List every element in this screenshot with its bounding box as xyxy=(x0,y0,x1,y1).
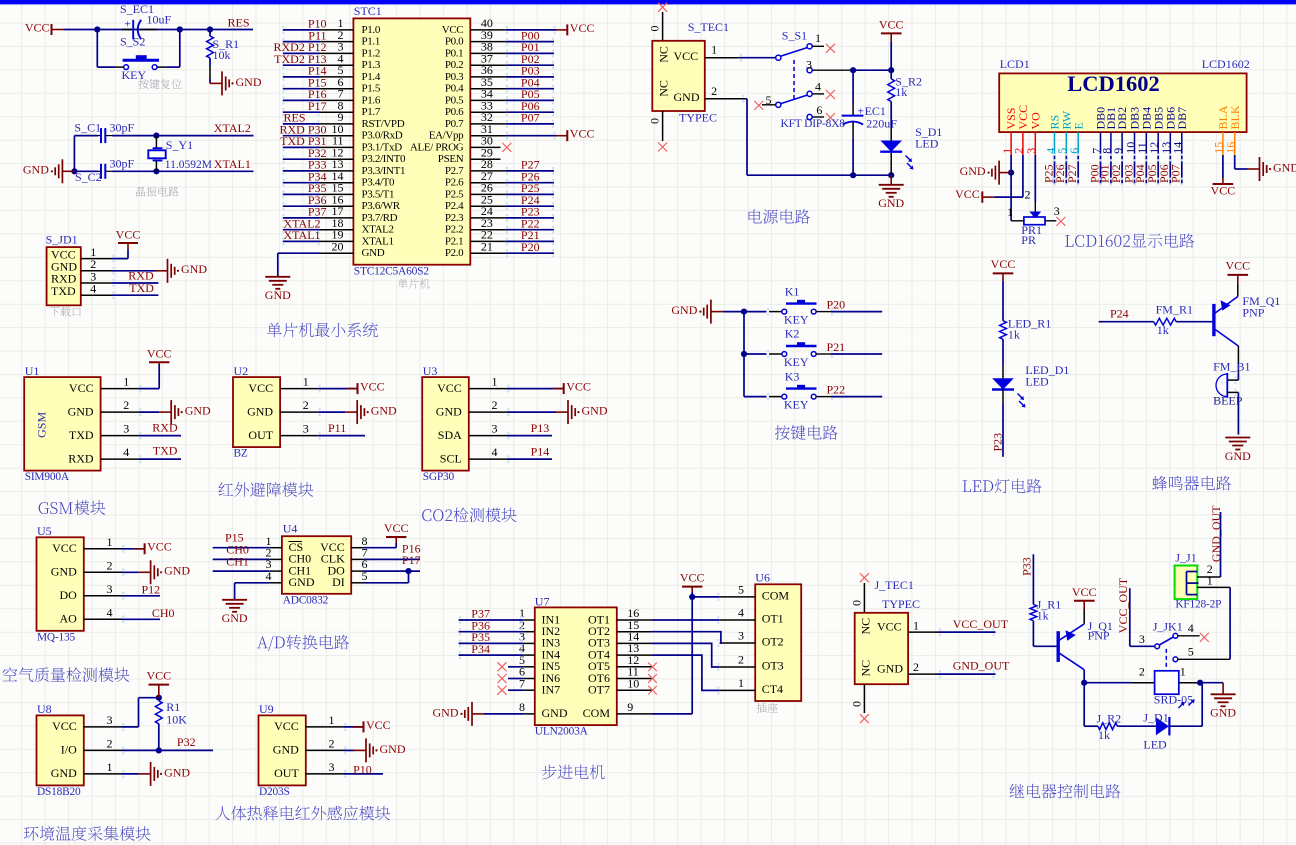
svg-text:1k: 1k xyxy=(895,85,907,99)
svg-text:P2.2: P2.2 xyxy=(445,224,463,236)
svg-text:1: 1 xyxy=(107,535,113,549)
svg-text:1: 1 xyxy=(1180,665,1186,679)
svg-text:DO: DO xyxy=(59,588,77,602)
svg-text:GND: GND xyxy=(181,262,207,276)
svg-text:P13: P13 xyxy=(531,421,550,435)
svg-text:3: 3 xyxy=(123,422,129,436)
svg-text:20: 20 xyxy=(332,239,344,253)
svg-text:STC1: STC1 xyxy=(354,4,382,18)
svg-text:U5: U5 xyxy=(37,524,52,538)
svg-text:+: + xyxy=(125,19,131,31)
svg-text:10uF: 10uF xyxy=(147,12,172,26)
svg-text:VCC: VCC xyxy=(147,540,172,554)
svg-text:P3.5/T1: P3.5/T1 xyxy=(362,189,395,201)
svg-text:P0.1: P0.1 xyxy=(445,48,463,60)
svg-text:VCC: VCC xyxy=(360,380,385,394)
svg-text:S_TEC1: S_TEC1 xyxy=(688,20,729,34)
svg-text:1k: 1k xyxy=(1008,327,1020,341)
svg-text:BZ: BZ xyxy=(234,448,248,460)
svg-text:P17: P17 xyxy=(308,99,327,113)
svg-text:VCC: VCC xyxy=(437,381,462,395)
svg-text:P1.0: P1.0 xyxy=(362,24,381,36)
svg-text:1k: 1k xyxy=(1157,323,1169,337)
svg-text:OUT: OUT xyxy=(274,766,299,780)
svg-text:LED: LED xyxy=(915,136,939,150)
svg-text:4: 4 xyxy=(90,282,96,296)
svg-text:4: 4 xyxy=(107,605,113,619)
svg-text:P1.2: P1.2 xyxy=(362,48,380,60)
svg-text:1k: 1k xyxy=(1037,608,1049,622)
svg-text:FM_R1: FM_R1 xyxy=(1156,303,1193,317)
svg-text:GND: GND xyxy=(222,611,248,625)
svg-text:P3.0/RxD: P3.0/RxD xyxy=(362,130,403,142)
svg-text:LED: LED xyxy=(1025,375,1049,389)
svg-text:P1.3: P1.3 xyxy=(362,59,381,71)
svg-text:P07: P07 xyxy=(521,111,540,125)
svg-text:P2.5: P2.5 xyxy=(445,189,464,201)
svg-text:U6: U6 xyxy=(755,571,770,585)
svg-text:ADC0832: ADC0832 xyxy=(283,594,329,606)
svg-text:2: 2 xyxy=(1025,187,1031,201)
svg-text:GND: GND xyxy=(68,404,94,418)
svg-text:PSEN: PSEN xyxy=(438,153,464,165)
svg-text:TXD: TXD xyxy=(51,284,76,298)
svg-text:P2.7: P2.7 xyxy=(445,165,464,177)
svg-text:P07: P07 xyxy=(1169,164,1183,183)
svg-text:KEY: KEY xyxy=(784,313,809,327)
svg-text:P22: P22 xyxy=(827,383,846,397)
svg-text:GND: GND xyxy=(362,247,385,259)
svg-text:PNP: PNP xyxy=(1242,306,1264,320)
svg-text:VCC: VCC xyxy=(991,257,1016,271)
svg-text:3: 3 xyxy=(107,582,113,596)
svg-text:VCC: VCC xyxy=(1072,585,1097,599)
svg-text:KF128-2P: KF128-2P xyxy=(1175,599,1221,611)
svg-text:P0.0: P0.0 xyxy=(445,36,464,48)
svg-text:SRD-05: SRD-05 xyxy=(1154,692,1193,706)
svg-text:1: 1 xyxy=(1007,205,1013,219)
svg-text:3: 3 xyxy=(303,422,309,436)
svg-text:GND: GND xyxy=(960,164,986,178)
svg-text:TXD: TXD xyxy=(129,281,154,295)
svg-text:P2.6: P2.6 xyxy=(445,177,464,189)
svg-text:P0.7: P0.7 xyxy=(445,118,464,130)
svg-text:PR: PR xyxy=(1021,233,1036,247)
svg-text:1: 1 xyxy=(815,31,821,45)
svg-text:1: 1 xyxy=(1207,573,1213,587)
svg-text:+: + xyxy=(1220,379,1226,390)
svg-text:VCC: VCC xyxy=(384,521,409,535)
svg-text:BEEP: BEEP xyxy=(1213,394,1243,408)
svg-text:ULN2003A: ULN2003A xyxy=(535,726,589,738)
svg-text:GND: GND xyxy=(436,404,462,418)
svg-text:2: 2 xyxy=(107,558,113,572)
svg-text:3: 3 xyxy=(107,713,113,727)
svg-text:2: 2 xyxy=(329,737,335,751)
svg-text:GND: GND xyxy=(671,303,697,317)
svg-text:XTAL1: XTAL1 xyxy=(214,157,251,171)
svg-text:P17: P17 xyxy=(402,553,421,567)
svg-text:GND: GND xyxy=(582,404,608,418)
svg-text:OT1: OT1 xyxy=(762,612,784,626)
svg-text:GND: GND xyxy=(433,705,459,719)
svg-text:I/O: I/O xyxy=(61,743,77,757)
svg-text:DI: DI xyxy=(332,575,345,589)
svg-text:XTAL2: XTAL2 xyxy=(362,224,394,236)
svg-text:U4: U4 xyxy=(283,521,298,535)
svg-text:D203S: D203S xyxy=(259,786,290,798)
svg-text:0: 0 xyxy=(849,600,863,606)
svg-text:6: 6 xyxy=(816,103,822,117)
svg-text:NC: NC xyxy=(859,618,873,635)
svg-text:VCC: VCC xyxy=(442,24,464,36)
svg-text:2: 2 xyxy=(711,84,717,98)
svg-text:VCC: VCC xyxy=(566,380,591,394)
svg-text:FM_B1: FM_B1 xyxy=(1213,360,1250,374)
svg-text:1: 1 xyxy=(123,375,129,389)
svg-text:VCC: VCC xyxy=(52,719,77,733)
svg-text:P3.3/INT1: P3.3/INT1 xyxy=(362,165,406,177)
svg-text:11.0592M: 11.0592M xyxy=(165,159,212,171)
svg-text:SCL: SCL xyxy=(440,451,462,465)
svg-text:P10: P10 xyxy=(353,763,372,777)
svg-text:P3.1/TxD: P3.1/TxD xyxy=(362,142,403,154)
svg-text:GND_OUT: GND_OUT xyxy=(953,658,1010,672)
svg-text:P3.7/RD: P3.7/RD xyxy=(362,212,398,224)
svg-text:14: 14 xyxy=(1171,142,1185,154)
svg-text:KEY: KEY xyxy=(122,68,147,82)
svg-text:GND: GND xyxy=(542,706,568,720)
svg-text:ALE/ PROG: ALE/ PROG xyxy=(410,142,464,154)
svg-text:P14: P14 xyxy=(531,445,550,459)
svg-text:P1.5: P1.5 xyxy=(362,83,381,95)
svg-text:P0.2: P0.2 xyxy=(445,59,463,71)
svg-text:1: 1 xyxy=(913,618,919,632)
svg-text:VCC: VCC xyxy=(52,541,77,555)
svg-text:+: + xyxy=(858,106,864,118)
svg-text:XTAL1: XTAL1 xyxy=(284,228,321,242)
svg-text:P0.6: P0.6 xyxy=(445,106,464,118)
svg-text:SIM900A: SIM900A xyxy=(25,471,70,483)
svg-text:4: 4 xyxy=(815,79,821,93)
svg-text:VCC: VCC xyxy=(570,21,595,35)
svg-text:21: 21 xyxy=(481,239,493,253)
svg-text:9: 9 xyxy=(627,700,633,714)
svg-text:VO: VO xyxy=(1028,112,1042,130)
svg-text:30pF: 30pF xyxy=(110,121,135,135)
svg-text:LED: LED xyxy=(1143,738,1167,752)
svg-text:VCC: VCC xyxy=(116,228,141,242)
svg-text:U8: U8 xyxy=(37,702,52,716)
svg-text:RXD: RXD xyxy=(68,451,94,465)
svg-text:1: 1 xyxy=(492,375,498,389)
svg-text:1k: 1k xyxy=(1098,728,1110,742)
svg-text:EA/Vpp: EA/Vpp xyxy=(429,130,464,142)
svg-text:S_JD1: S_JD1 xyxy=(46,233,78,247)
svg-text:2: 2 xyxy=(123,398,129,412)
svg-text:LCD1602: LCD1602 xyxy=(1067,71,1160,96)
svg-text:J_TEC1: J_TEC1 xyxy=(875,578,914,592)
svg-text:0: 0 xyxy=(849,701,863,707)
svg-text:K1: K1 xyxy=(785,284,800,298)
svg-text:XTAL2: XTAL2 xyxy=(214,121,251,135)
svg-text:2: 2 xyxy=(492,398,498,412)
svg-text:E: E xyxy=(1071,122,1085,129)
svg-text:CT4: CT4 xyxy=(762,682,783,696)
svg-text:1: 1 xyxy=(711,43,717,57)
svg-text:S_S1: S_S1 xyxy=(782,29,807,43)
svg-text:GND: GND xyxy=(1225,449,1251,463)
svg-text:K2: K2 xyxy=(785,327,800,341)
svg-text:1: 1 xyxy=(107,760,113,774)
svg-text:GND: GND xyxy=(1273,160,1296,174)
svg-text:GND: GND xyxy=(51,766,77,780)
svg-text:GND: GND xyxy=(236,75,262,89)
svg-text:P2.4: P2.4 xyxy=(445,200,464,212)
svg-text:0: 0 xyxy=(648,26,662,32)
svg-text:CH0: CH0 xyxy=(152,606,175,620)
svg-text:GND: GND xyxy=(674,90,700,104)
svg-text:J_J1: J_J1 xyxy=(1175,551,1196,565)
svg-text:VCC: VCC xyxy=(146,668,171,682)
svg-text:COM: COM xyxy=(583,706,611,720)
svg-text:2: 2 xyxy=(1139,665,1145,679)
svg-text:3: 3 xyxy=(329,760,335,774)
svg-text:OT2: OT2 xyxy=(762,635,784,649)
svg-text:P0.5: P0.5 xyxy=(445,95,464,107)
svg-text:2: 2 xyxy=(107,737,113,751)
svg-text:GND: GND xyxy=(273,743,299,757)
svg-text:1: 1 xyxy=(329,713,335,727)
svg-text:TYPEC: TYPEC xyxy=(882,597,920,611)
svg-text:S_S2: S_S2 xyxy=(120,34,145,48)
svg-text:4: 4 xyxy=(123,445,129,459)
svg-text:OUT: OUT xyxy=(248,428,273,442)
svg-text:S_C1: S_C1 xyxy=(74,121,101,135)
svg-text:CH1: CH1 xyxy=(226,554,249,568)
svg-text:VCC: VCC xyxy=(680,571,705,585)
svg-text:DS18B20: DS18B20 xyxy=(37,786,81,798)
svg-text:KFT DIP-8X8: KFT DIP-8X8 xyxy=(781,118,846,130)
svg-text:OT3: OT3 xyxy=(762,659,784,673)
svg-text:3: 3 xyxy=(738,629,744,643)
svg-text:GSM: GSM xyxy=(34,412,48,438)
svg-text:P27: P27 xyxy=(1065,164,1079,183)
svg-text:3: 3 xyxy=(1139,632,1145,646)
svg-text:VCC: VCC xyxy=(274,719,299,733)
svg-text:VCC: VCC xyxy=(1225,259,1250,273)
svg-text:P2.1: P2.1 xyxy=(445,236,463,248)
svg-text:3: 3 xyxy=(806,58,812,72)
svg-text:P2.3: P2.3 xyxy=(445,212,464,224)
svg-text:P0.3: P0.3 xyxy=(445,71,464,83)
svg-text:GND: GND xyxy=(289,575,315,589)
svg-text:U2: U2 xyxy=(234,364,249,378)
svg-text:P32: P32 xyxy=(177,735,196,749)
svg-text:220uF: 220uF xyxy=(866,116,897,130)
svg-text:NC: NC xyxy=(656,46,670,63)
svg-text:S_Y1: S_Y1 xyxy=(166,138,193,152)
svg-text:NC: NC xyxy=(656,80,670,97)
svg-text:VCC: VCC xyxy=(879,18,904,32)
svg-text:VCC: VCC xyxy=(877,620,902,634)
svg-text:GND: GND xyxy=(371,404,397,418)
svg-text:KEY: KEY xyxy=(784,398,809,412)
svg-text:5: 5 xyxy=(1188,645,1194,659)
svg-text:S_C2: S_C2 xyxy=(75,170,102,184)
svg-text:P23: P23 xyxy=(991,433,1005,452)
svg-text:1: 1 xyxy=(738,676,744,690)
svg-text:P0.4: P0.4 xyxy=(445,83,464,95)
svg-text:VCC_OUT: VCC_OUT xyxy=(1116,577,1130,633)
svg-text:NC: NC xyxy=(859,660,873,677)
svg-text:U3: U3 xyxy=(423,364,438,378)
svg-text:GND: GND xyxy=(23,163,49,177)
svg-text:VCC: VCC xyxy=(69,381,94,395)
svg-text:P3.6/WR: P3.6/WR xyxy=(362,200,401,212)
svg-text:VCC: VCC xyxy=(147,347,172,361)
svg-text:GND_OUT: GND_OUT xyxy=(1209,505,1223,562)
svg-text:VCC: VCC xyxy=(674,49,699,63)
svg-text:P1.4: P1.4 xyxy=(362,71,381,83)
svg-text:MQ-135: MQ-135 xyxy=(37,631,76,643)
svg-text:VCC: VCC xyxy=(570,127,595,141)
svg-text:10K: 10K xyxy=(166,713,187,727)
svg-text:P3.4/T0: P3.4/T0 xyxy=(362,177,396,189)
svg-text:TXD: TXD xyxy=(69,428,94,442)
svg-text:STC12C5A60S2: STC12C5A60S2 xyxy=(354,265,429,277)
svg-text:3: 3 xyxy=(1024,148,1038,154)
svg-text:BLK: BLK xyxy=(1228,105,1242,129)
svg-text:RST/VPD: RST/VPD xyxy=(362,118,405,130)
svg-text:GND: GND xyxy=(51,565,77,579)
svg-text:P20: P20 xyxy=(827,298,846,312)
svg-text:KEY: KEY xyxy=(784,355,809,369)
svg-text:RXD: RXD xyxy=(152,420,178,434)
svg-text:2: 2 xyxy=(303,398,309,412)
svg-text:VCC: VCC xyxy=(1211,183,1236,197)
svg-text:LCD1: LCD1 xyxy=(1000,57,1030,71)
svg-text:GND: GND xyxy=(877,661,903,675)
svg-text:DB7: DB7 xyxy=(1175,107,1189,130)
svg-text:SGP30: SGP30 xyxy=(423,471,455,483)
svg-text:P3.2/INT0: P3.2/INT0 xyxy=(362,153,406,165)
svg-text:P1.6: P1.6 xyxy=(362,95,381,107)
svg-text:1: 1 xyxy=(303,375,309,389)
svg-text:U1: U1 xyxy=(25,364,40,378)
svg-text:4: 4 xyxy=(1188,621,1194,635)
svg-text:P11: P11 xyxy=(328,421,346,435)
svg-text:10: 10 xyxy=(627,676,639,690)
svg-text:GND: GND xyxy=(164,564,190,578)
svg-text:P2.0: P2.0 xyxy=(445,247,464,259)
svg-text:VCC: VCC xyxy=(25,20,50,34)
svg-text:4: 4 xyxy=(492,445,498,459)
svg-text:8: 8 xyxy=(519,700,525,714)
svg-text:VCC_OUT: VCC_OUT xyxy=(953,617,1009,631)
svg-text:J_R2: J_R2 xyxy=(1097,712,1122,726)
svg-text:P34: P34 xyxy=(471,642,490,656)
svg-text:LCD1602: LCD1602 xyxy=(1202,57,1250,71)
svg-text:6: 6 xyxy=(1067,148,1081,154)
svg-text:P21: P21 xyxy=(827,340,846,354)
svg-text:COM: COM xyxy=(762,589,790,603)
svg-text:5: 5 xyxy=(738,583,744,597)
svg-text:K3: K3 xyxy=(785,369,800,383)
svg-text:3: 3 xyxy=(492,422,498,436)
svg-text:VCC: VCC xyxy=(248,381,273,395)
svg-text:IN7: IN7 xyxy=(542,683,561,697)
svg-text:P33: P33 xyxy=(1020,557,1034,576)
svg-text:VCC: VCC xyxy=(366,718,391,732)
svg-text:P1.7: P1.7 xyxy=(362,106,381,118)
svg-text:GND: GND xyxy=(380,742,406,756)
svg-text:P20: P20 xyxy=(521,240,540,254)
svg-text:TXD: TXD xyxy=(153,444,178,458)
svg-text:OT7: OT7 xyxy=(588,683,610,697)
svg-text:0: 0 xyxy=(648,118,662,124)
svg-text:2: 2 xyxy=(913,660,919,674)
svg-text:16: 16 xyxy=(1224,142,1238,154)
svg-text:GND: GND xyxy=(185,404,211,418)
svg-text:U9: U9 xyxy=(259,702,274,716)
svg-text:J_D1: J_D1 xyxy=(1143,711,1168,725)
svg-text:GND: GND xyxy=(265,288,291,302)
svg-text:3: 3 xyxy=(1054,204,1060,218)
svg-text:XTAL1: XTAL1 xyxy=(362,236,394,248)
svg-text:P12: P12 xyxy=(142,583,161,597)
svg-text:2: 2 xyxy=(738,653,744,667)
svg-text:4: 4 xyxy=(738,606,744,620)
svg-text:P1.1: P1.1 xyxy=(362,36,380,48)
svg-text:GND: GND xyxy=(878,196,904,210)
svg-text:P24: P24 xyxy=(1110,306,1129,320)
svg-text:GND: GND xyxy=(164,765,190,779)
svg-text:PNP: PNP xyxy=(1088,628,1110,642)
svg-text:30pF: 30pF xyxy=(110,156,135,170)
svg-text:10k: 10k xyxy=(213,48,231,62)
svg-text:GND: GND xyxy=(1210,706,1236,720)
svg-text:GND: GND xyxy=(247,404,273,418)
svg-text:SDA: SDA xyxy=(438,428,462,442)
svg-text:VCC: VCC xyxy=(955,187,980,201)
svg-text:TYPEC: TYPEC xyxy=(679,110,717,124)
svg-text:J_JK1: J_JK1 xyxy=(1153,619,1183,633)
svg-text:AO: AO xyxy=(59,612,77,626)
svg-text:RES: RES xyxy=(228,16,250,30)
